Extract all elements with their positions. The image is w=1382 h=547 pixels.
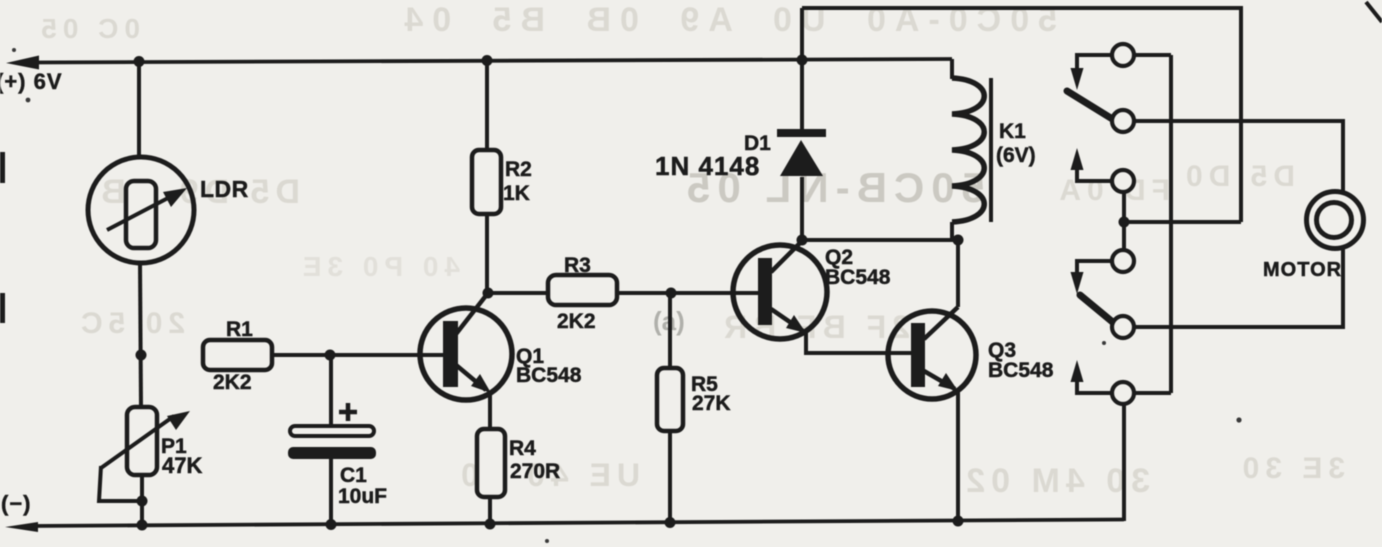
node R2/R3/Q1 collector	[483, 288, 494, 299]
svg-text:C1: C1	[340, 464, 367, 487]
contact F arrow	[1071, 360, 1084, 382]
relay blade 1	[1067, 91, 1114, 120]
wire P1 to rail	[140, 475, 144, 526]
node Q3/rail	[953, 516, 964, 527]
transistor Q1	[420, 293, 512, 400]
contact B wire to motor	[1134, 121, 1343, 193]
diode D1	[777, 129, 826, 176]
svg-text:10uF: 10uF	[338, 485, 387, 508]
svg-text:20 5C: 20 5C	[75, 307, 185, 340]
motor M1	[1307, 192, 1364, 249]
scan mark left edge 1	[0, 152, 5, 183]
node C-D	[1119, 217, 1130, 228]
ghost bleed-through text row 2	[95, 160, 1295, 211]
wire node to C1	[329, 355, 333, 426]
node D1/Q2 collector	[797, 235, 808, 246]
svg-text:R1: R1	[226, 318, 253, 341]
svg-text:1K: 1K	[503, 182, 530, 205]
resistor R4	[477, 429, 505, 497]
ghost bleed-through text row 1	[35, 1, 1057, 44]
top link line	[802, 8, 1241, 222]
wire node to Q2 base	[671, 291, 758, 295]
svg-text:1N 4148: 1N 4148	[655, 151, 760, 181]
contact A wires	[1077, 55, 1171, 68]
svg-text:K1: K1	[999, 120, 1026, 143]
svg-text:2K2: 2K2	[557, 310, 596, 333]
wire node to top link	[1124, 220, 1241, 224]
node R5/rail	[665, 517, 676, 528]
contact C wires	[1077, 170, 1112, 181]
wire rail to R2	[485, 61, 489, 150]
node LDR/R1/P1	[136, 350, 147, 361]
svg-text:3E 30: 3E 30	[1237, 452, 1345, 485]
svg-text:2K2: 2K2	[213, 371, 252, 394]
resistor R5	[657, 368, 683, 431]
resistor R3	[548, 275, 617, 305]
wire Q3 collector	[956, 240, 960, 307]
ghost bleed-through text row 4	[455, 452, 1345, 500]
transistor Q3	[888, 307, 976, 399]
contact A arrow	[1071, 68, 1084, 90]
contact D arrow	[1071, 272, 1084, 294]
node R3/R5/Q2 base	[666, 288, 677, 299]
svg-text:47K: 47K	[162, 453, 202, 478]
wire LDR to node	[140, 263, 141, 407]
contact D	[1112, 250, 1134, 272]
resistor R1	[203, 340, 272, 370]
svg-text:D5 D0: D5 D0	[1180, 160, 1295, 193]
node rail/R2	[482, 55, 493, 66]
svg-text:BC548: BC548	[988, 359, 1054, 382]
svg-text:MOTOR: MOTOR	[1263, 259, 1342, 281]
node R1/C1/Q1	[325, 350, 336, 361]
wire rail end into coil	[950, 59, 954, 79]
LDR	[88, 157, 194, 263]
node R4/rail	[485, 519, 496, 530]
svg-text:(6V): (6V)	[996, 144, 1036, 167]
svg-text:LDR: LDR	[200, 176, 249, 202]
node P1/rail	[137, 520, 148, 531]
wire coil stub	[950, 222, 954, 240]
wire C1 to rail	[329, 459, 333, 525]
contact A	[1112, 44, 1134, 66]
node P1 wiper	[137, 496, 148, 507]
bottom -V rail	[30, 520, 1124, 527]
svg-text:R3: R3	[564, 254, 591, 277]
svg-text:R4: R4	[509, 437, 536, 460]
top rail left arrowhead	[6, 56, 39, 70]
node rail/LDR	[134, 56, 145, 67]
potentiometer P1	[99, 407, 190, 501]
wire top line to D1	[800, 8, 804, 130]
scan mark left edge 2	[0, 293, 5, 323]
wire node to R5	[668, 293, 672, 368]
scan mark top right corner	[1366, 2, 1382, 22]
bottom rail left arrowhead	[5, 522, 38, 532]
wire Q1 emitter to R4	[488, 392, 492, 430]
svg-text:(+) 6V: (+) 6V	[0, 69, 63, 94]
svg-text:30 4M 02: 30 4M 02	[960, 462, 1150, 500]
svg-text:0C 05: 0C 05	[35, 13, 140, 44]
contact C arrow	[1071, 148, 1084, 170]
svg-text:BC548: BC548	[825, 266, 891, 289]
wire rail to LDR	[137, 61, 141, 158]
wire R5 to rail	[668, 431, 672, 523]
ghost bleed-through text row 3	[75, 251, 910, 345]
right link vertical A-F	[1169, 55, 1173, 393]
node coil row/Q3 collector	[953, 235, 964, 246]
node rail/D1	[797, 55, 808, 66]
relay blade 2	[1080, 295, 1115, 324]
wire Q2 emitter to Q3 base	[806, 332, 911, 353]
capacitor C1	[288, 403, 376, 459]
wire C-D link	[1122, 192, 1126, 250]
relay core bar	[989, 78, 993, 222]
transistor Q2	[733, 241, 827, 339]
wire node to R3	[488, 291, 548, 295]
contact E wire to motor	[1134, 247, 1343, 327]
svg-text:BC548: BC548	[516, 364, 582, 387]
top +6V rail	[30, 59, 952, 63]
svg-text:R2: R2	[505, 158, 532, 181]
contact C	[1112, 170, 1134, 192]
svg-text:(−): (−)	[1, 491, 32, 516]
svg-text:270R: 270R	[510, 460, 560, 483]
wire Q3 emitter to rail	[956, 391, 960, 522]
svg-text:40 P0 3E: 40 P0 3E	[297, 251, 460, 282]
wire R2 to collector node	[485, 214, 489, 293]
contact D wires	[1077, 261, 1112, 272]
contact B	[1112, 110, 1134, 132]
svg-text:27K: 27K	[692, 392, 731, 415]
wire R4 to rail	[488, 496, 492, 525]
node C1/rail	[326, 519, 337, 530]
contact F wires	[1077, 382, 1171, 521]
contact F	[1112, 382, 1134, 404]
wire R3 to node	[617, 291, 671, 295]
resistor R2	[472, 150, 501, 214]
wire coil bottom row	[802, 238, 958, 242]
wire D1 to coil row	[800, 177, 804, 240]
contact E	[1112, 316, 1134, 338]
relay coil K1	[952, 78, 984, 222]
wire R1 to Q1 base	[272, 353, 443, 357]
